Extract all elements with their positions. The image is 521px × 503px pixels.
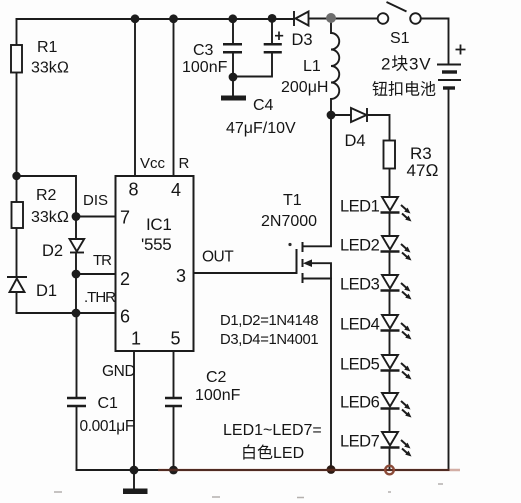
svg-text:LED4: LED4: [340, 316, 380, 334]
svg-text:8: 8: [129, 180, 139, 200]
wire R column: [173, 19, 175, 176]
wire TR to pin2: [76, 273, 116, 275]
resistor R1: [11, 45, 22, 73]
node C3/C4 ground: [229, 73, 238, 82]
svg-text:LED7: LED7: [340, 433, 380, 451]
svg-text:D3,D4=1N4001: D3,D4=1N4001: [220, 332, 318, 348]
svg-text:C2: C2: [206, 369, 227, 386]
LED2: [381, 236, 409, 258]
node THR: [72, 309, 81, 318]
wire C3 stubs: [232, 19, 234, 96]
svg-text:R1: R1: [37, 39, 58, 56]
node DIS: [72, 212, 81, 221]
svg-text:Vcc: Vcc: [140, 155, 166, 172]
wire battery bottom lead: [448, 88, 450, 470]
T1 body arrow head: [303, 259, 312, 267]
inductor L1: [331, 33, 339, 99]
svg-text:33kΩ: 33kΩ: [31, 60, 69, 77]
svg-text:47μF/10V: 47μF/10V: [226, 120, 296, 137]
node top Vcc: [131, 14, 140, 23]
capacitor C2: [165, 398, 182, 406]
node bottom pin5: [169, 466, 178, 475]
node bottom pin1: [130, 466, 139, 475]
svg-text:33kΩ: 33kΩ: [31, 209, 69, 226]
svg-text:'555: '555: [141, 235, 171, 254]
LED3: [381, 275, 409, 297]
svg-text:200μH: 200μH: [281, 79, 328, 96]
wire pin5 C2 column: [173, 351, 175, 470]
wire L1 leads: [330, 19, 332, 115]
node TR: [72, 270, 81, 279]
svg-text:47Ω: 47Ω: [407, 161, 439, 180]
svg-text:D3: D3: [292, 31, 313, 49]
node top C3: [228, 14, 237, 23]
svg-text:LED1: LED1: [340, 198, 380, 216]
speck near gate: [288, 243, 291, 246]
LED4: [381, 315, 409, 337]
svg-text:100nF: 100nF: [195, 387, 241, 404]
svg-text:0.001μF: 0.001μF: [80, 418, 134, 435]
svg-text:GND: GND: [102, 363, 135, 380]
wire MOSFET body arrow line: [311, 263, 331, 278]
ground C3/C4: [221, 96, 246, 101]
ground main: [123, 489, 148, 495]
svg-text:LED2: LED2: [340, 237, 380, 255]
wire branch to DIS column: [17, 176, 77, 217]
wire pin1 GND column: [133, 351, 135, 470]
svg-text:1: 1: [131, 329, 141, 349]
C4 plus sign: [275, 32, 283, 41]
svg-text:.THR: .THR: [84, 289, 116, 306]
capacitor C1: [67, 398, 86, 406]
wire MOSFET drain vertical: [303, 115, 332, 246]
svg-text:L1: L1: [303, 58, 321, 75]
artifact bottom specks: [54, 484, 443, 498]
LED6: [381, 393, 409, 415]
svg-text:R2: R2: [36, 187, 57, 204]
svg-text:100nF: 100nF: [182, 59, 228, 76]
transistor T1 2N7000: [297, 242, 303, 283]
wire top rail mid D3 to S1: [309, 18, 378, 20]
IC U1: 555 timer box: [116, 176, 194, 351]
svg-text:C4: C4: [253, 97, 274, 114]
node top R: [169, 14, 178, 23]
resistor R2: [12, 202, 24, 228]
svg-text:3: 3: [176, 266, 186, 286]
svg-text:5: 5: [171, 329, 181, 349]
svg-text:LED6: LED6: [340, 394, 380, 412]
wire THR line: [17, 312, 116, 314]
node L1/D4 drain: [327, 111, 336, 120]
wire D2 column: [75, 217, 77, 314]
battery B1 2x3V: [437, 45, 466, 89]
diode D2: [70, 239, 85, 253]
svg-text:DIS: DIS: [83, 192, 108, 209]
svg-text:2块3V: 2块3V: [381, 55, 431, 74]
artifact reddish bottom line: [158, 469, 460, 471]
svg-text:7: 7: [120, 208, 130, 228]
svg-text:S1: S1: [390, 30, 410, 47]
node left rail branch: [12, 172, 20, 180]
svg-text:D1: D1: [36, 282, 57, 300]
node bottom LED7 artifact ring: [385, 466, 394, 475]
svg-text:4: 4: [171, 180, 181, 200]
wire DIS to pin7: [76, 216, 116, 218]
wire LED chain: [389, 169, 391, 471]
svg-text:T1: T1: [283, 192, 302, 209]
svg-text:D2: D2: [42, 242, 63, 260]
wire D4 row to R3: [331, 115, 390, 141]
svg-text:D1,D2=1N4148: D1,D2=1N4148: [220, 313, 318, 329]
svg-text:C3: C3: [193, 42, 214, 59]
wire ground stub main: [133, 470, 135, 489]
capacitor C3: [223, 44, 242, 52]
node bottom source: [327, 465, 336, 474]
LED1: [381, 197, 409, 219]
wire left rail: [16, 19, 18, 313]
wire Vcc column: [134, 19, 136, 176]
wire C1 column: [76, 313, 78, 470]
resistor R3: [384, 141, 396, 169]
svg-text:LED3: LED3: [340, 276, 380, 294]
LED5: [381, 355, 409, 377]
svg-text:TR: TR: [93, 252, 112, 269]
svg-text:C1: C1: [98, 395, 119, 412]
svg-text:钮扣电池: 钮扣电池: [372, 81, 436, 99]
wire OUT line pin3 to gate: [194, 272, 297, 274]
switch S1: [378, 2, 421, 24]
svg-text:LED1~LED7=: LED1~LED7=: [223, 422, 322, 439]
LED7: [381, 432, 409, 454]
svg-text:2: 2: [120, 269, 130, 289]
svg-text:LED5: LED5: [340, 356, 380, 374]
svg-text:2N7000: 2N7000: [261, 213, 317, 230]
svg-text:D4: D4: [345, 132, 366, 150]
wire MOSFET source: [303, 279, 332, 471]
capacitor C4: [264, 44, 282, 52]
node top C4: [268, 14, 277, 23]
svg-text:白色LED: 白色LED: [241, 444, 304, 462]
svg-text:IC1: IC1: [146, 215, 172, 234]
svg-text:R: R: [179, 155, 190, 172]
node L1 top gray: [326, 13, 336, 23]
diode D4: [351, 108, 367, 122]
wire top rail S1 to battery corner: [421, 19, 449, 65]
svg-text:6: 6: [120, 307, 130, 327]
diode D3: [294, 11, 309, 26]
wire C4 stubs: [233, 19, 272, 77]
wire top rail left: [17, 18, 295, 20]
svg-text:OUT: OUT: [202, 249, 234, 266]
wire bottom rail: [77, 469, 449, 471]
diode D1: [7, 277, 27, 292]
